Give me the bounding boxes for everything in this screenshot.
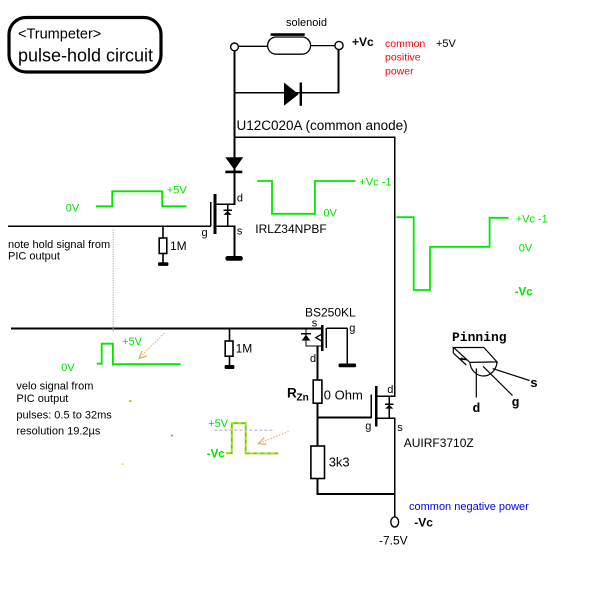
svg-text:s: s: [237, 225, 243, 237]
svg-text:Pinning: Pinning: [452, 330, 507, 345]
svg-text:+Vc: +Vc: [352, 35, 374, 49]
svg-text:1M: 1M: [170, 239, 187, 253]
svg-text:resolution 19.2µs: resolution 19.2µs: [16, 426, 100, 438]
svg-text:pulse-hold circuit: pulse-hold circuit: [18, 46, 153, 66]
svg-text:<Trumpeter>: <Trumpeter>: [18, 27, 101, 43]
svg-text:+5V: +5V: [436, 38, 457, 50]
svg-text:0V: 0V: [61, 362, 75, 374]
svg-text:1M: 1M: [236, 342, 253, 356]
svg-text:common: common: [385, 38, 425, 50]
svg-text:note hold signal from: note hold signal from: [8, 239, 110, 251]
svg-text:0 Ohm: 0 Ohm: [324, 388, 363, 403]
svg-text:0V: 0V: [519, 242, 533, 254]
svg-text:pulses: 0.5 to 32ms: pulses: 0.5 to 32ms: [16, 409, 112, 421]
svg-text:d: d: [473, 401, 481, 416]
svg-text:d: d: [310, 353, 316, 365]
svg-text:AUIRF3710Z: AUIRF3710Z: [404, 436, 474, 450]
svg-text:-Vc: -Vc: [414, 515, 433, 529]
svg-text:-Vc: -Vc: [515, 286, 534, 298]
svg-text:d: d: [387, 384, 393, 396]
svg-text:Zn: Zn: [297, 393, 309, 404]
svg-text:common negative power: common negative power: [409, 501, 529, 513]
svg-text:0V: 0V: [66, 203, 80, 215]
svg-text:-7.5V: -7.5V: [379, 534, 408, 548]
svg-text:solenoid: solenoid: [286, 17, 327, 29]
svg-text:IRLZ34NPBF: IRLZ34NPBF: [255, 222, 326, 236]
svg-text:velo signal from: velo signal from: [16, 381, 93, 393]
svg-text:g: g: [512, 395, 520, 410]
svg-text:+Vc -1: +Vc -1: [359, 176, 391, 188]
svg-text:U12C020A (common anode): U12C020A (common anode): [237, 118, 408, 133]
svg-text:g: g: [365, 421, 371, 433]
svg-text:PIC output: PIC output: [16, 393, 68, 405]
svg-text:g: g: [349, 322, 355, 334]
svg-text:positive: positive: [385, 52, 421, 64]
svg-text:+5V: +5V: [208, 418, 229, 430]
svg-text:d: d: [237, 193, 243, 205]
svg-text:PIC output: PIC output: [8, 251, 60, 263]
svg-text:s: s: [397, 422, 403, 434]
svg-text:3k3: 3k3: [329, 455, 350, 470]
svg-text:power: power: [385, 66, 414, 78]
svg-text:s: s: [530, 376, 538, 391]
svg-text:+5V: +5V: [167, 184, 188, 196]
svg-text:+Vc -1: +Vc -1: [516, 213, 548, 225]
svg-text:-Vc: -Vc: [207, 448, 226, 460]
svg-text:+5V: +5V: [122, 336, 143, 348]
svg-text:s: s: [312, 317, 318, 329]
svg-text:g: g: [202, 227, 208, 239]
svg-text:0V: 0V: [323, 207, 337, 219]
svg-text:R: R: [287, 386, 297, 401]
